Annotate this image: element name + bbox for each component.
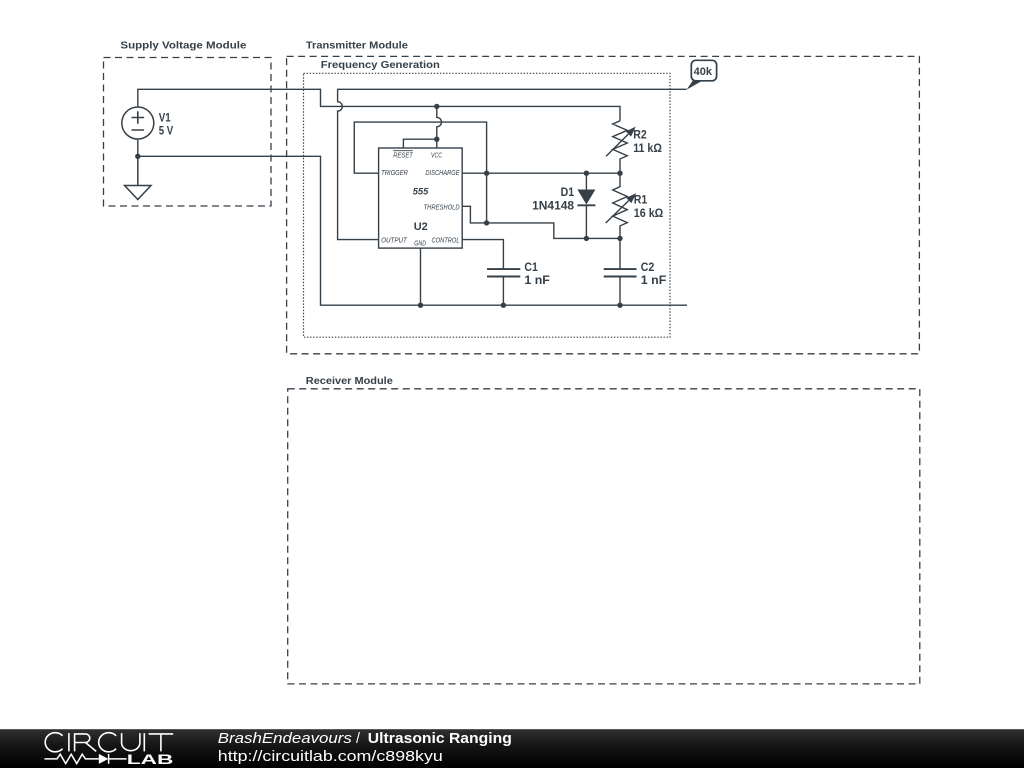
node R1 bottom junction: [617, 236, 622, 241]
svg-text:Transmitter Module: Transmitter Module: [306, 41, 408, 52]
svg-text:U2: U2: [414, 221, 428, 233]
svg-text:Ultrasonic Ranging: Ultrasonic Ranging: [368, 731, 512, 747]
svg-text:CONTROL: CONTROL: [432, 236, 460, 245]
wire TRIGGER to THRESHOLD net: [354, 122, 486, 223]
ground: [125, 156, 151, 199]
diode D1: [532, 173, 595, 238]
svg-text:http://circuitlab.com/c898kyu: http://circuitlab.com/c898kyu: [218, 749, 443, 765]
footer bar: [0, 729, 1024, 768]
wire GND pin to ground rail: [420, 248, 422, 305]
svg-text:VCC: VCC: [431, 151, 442, 160]
svg-text:R1: R1: [634, 193, 648, 207]
wire output to 40k probe rail: [338, 89, 687, 239]
svg-text:D1: D1: [561, 185, 575, 199]
svg-text:Supply Voltage Module: Supply Voltage Module: [120, 41, 246, 52]
node C2 rail junction: [617, 303, 622, 308]
wire THRESHOLD pin: [462, 206, 620, 238]
capacitor C2: [604, 238, 667, 305]
svg-text:Receiver Module: Receiver Module: [306, 376, 393, 387]
resistor R1: [606, 173, 664, 238]
node discharge R2 R1 junction: [617, 171, 622, 176]
svg-text:Frequency Generation: Frequency Generation: [321, 60, 440, 71]
node D1 bottom junction: [584, 236, 589, 241]
node VCC rail junction: [434, 104, 439, 109]
svg-text:/: /: [356, 731, 360, 747]
svg-text:40k: 40k: [694, 66, 713, 78]
svg-text:16 kΩ: 16 kΩ: [634, 206, 664, 220]
footer title text: [218, 731, 512, 747]
svg-text:LAB: LAB: [127, 752, 174, 768]
capacitor C1: [487, 260, 550, 305]
wire V1 plus to VCC rail: [138, 89, 620, 121]
logo CircuitLab: [44, 733, 173, 768]
voltage source V1: [122, 107, 173, 139]
svg-text:GND: GND: [414, 238, 426, 247]
svg-text:555: 555: [413, 187, 429, 198]
footer url text: [218, 749, 443, 765]
node threshold trigger junction: [484, 220, 489, 225]
svg-text:5 V: 5 V: [159, 123, 174, 137]
svg-text:1N4148: 1N4148: [532, 199, 574, 213]
svg-text:R2: R2: [633, 128, 647, 142]
svg-text:TRIGGER: TRIGGER: [381, 168, 408, 177]
svg-text:11 kΩ: 11 kΩ: [633, 141, 662, 155]
wire DISCHARGE pin: [462, 172, 620, 174]
node C1 rail junction: [501, 303, 506, 308]
node discharge D1 junction: [584, 171, 589, 176]
node discharge-trigger crossing junction: [484, 171, 489, 176]
op-amp U2 555 timer box: [379, 148, 463, 248]
node GND rail junction: [418, 303, 423, 308]
svg-text:1 nF: 1 nF: [524, 273, 550, 287]
svg-text:1 nF: 1 nF: [641, 273, 667, 287]
svg-text:RESET: RESET: [393, 151, 414, 160]
wire RESET pin: [403, 139, 436, 148]
svg-text:THRESHOLD: THRESHOLD: [424, 202, 460, 211]
svg-text:DISCHARGE: DISCHARGE: [425, 168, 460, 177]
resistor R2: [606, 121, 662, 173]
module box Transmitter Module: [287, 41, 920, 354]
annotation 40k callout: [687, 60, 717, 89]
node RESET VCC junction: [434, 137, 439, 142]
module box Supply Voltage Module: [104, 41, 272, 206]
svg-text:OUTPUT: OUTPUT: [381, 236, 408, 245]
wire CONTROL to C1: [462, 240, 503, 270]
wire VCC pin: [437, 106, 442, 148]
svg-text:BrashEndeavours: BrashEndeavours: [218, 731, 352, 747]
node V1 minus junction: [135, 154, 140, 159]
module box Frequency Generation: [304, 60, 671, 337]
module box Receiver Module: [288, 376, 920, 684]
wire V1 minus to ground rail: [138, 139, 687, 305]
